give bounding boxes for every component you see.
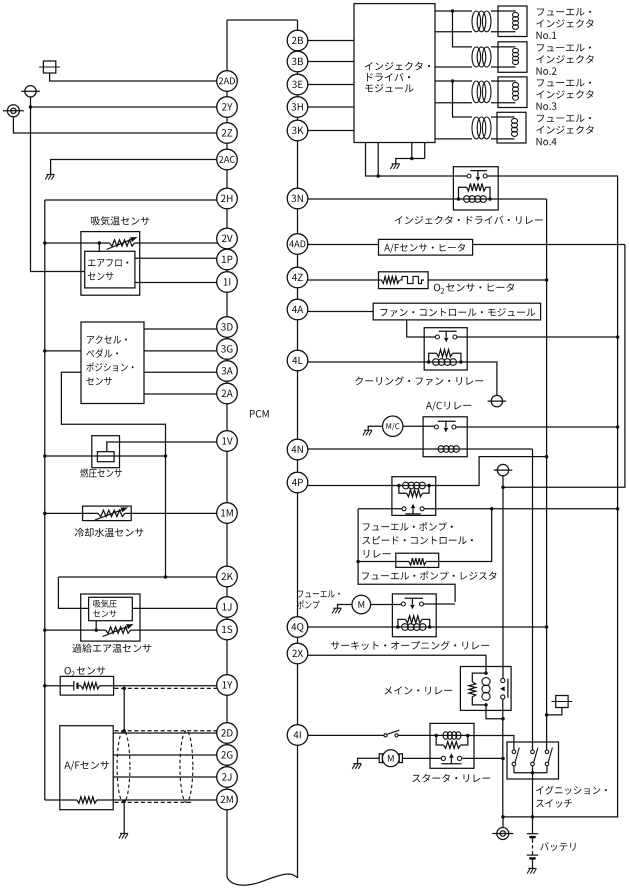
PCM pin 1I xyxy=(217,272,238,293)
injector cable coil No.1 xyxy=(472,11,491,32)
relay K1 box (injector driver relay) xyxy=(453,167,498,210)
PCM pin 2G xyxy=(217,745,238,766)
node fuelpressure-return xyxy=(164,454,168,458)
ground G6 (starter) xyxy=(352,764,361,769)
injector No.3 label line2 xyxy=(536,90,593,98)
PCM pin 2K xyxy=(217,566,238,587)
wire K4 drop to resistor xyxy=(439,509,492,562)
ignition switch terminals top xyxy=(512,750,549,754)
relay K4 label line3 xyxy=(364,550,391,558)
page connector J3 (double circle) xyxy=(3,105,24,117)
PCM pin 4AD xyxy=(287,234,308,255)
relay K5 parallel resistor xyxy=(398,616,430,627)
PCM pin 2A xyxy=(217,383,238,404)
thermistor RT3 (charge air temp) xyxy=(103,624,134,637)
relay K4 contact bar+arrow xyxy=(405,504,421,514)
node inj1 feed xyxy=(451,9,455,13)
PCM pin 3G xyxy=(217,339,238,360)
relay K2 box (cooling fan relay) xyxy=(424,328,467,370)
wire feed drop to injector No.4 xyxy=(453,81,473,117)
node K7 coil left xyxy=(434,734,438,738)
motor M2 (fuel pump) xyxy=(352,595,371,614)
wire 2X row xyxy=(308,655,486,673)
injector No.1 label line2 xyxy=(536,19,593,27)
switch S1 (open contact) xyxy=(384,730,399,737)
PCM pin 4N xyxy=(287,439,308,460)
node module-K1 junction xyxy=(376,174,380,178)
wire A/F to pin 2G xyxy=(113,754,218,756)
wire to pin 2Y xyxy=(31,106,219,108)
relay K4 label line1 xyxy=(363,522,453,531)
fuel pressure sensor outer box xyxy=(92,436,120,468)
APP sensor label line3 xyxy=(86,363,133,372)
node bus-2V xyxy=(43,241,47,245)
page connector J5 xyxy=(494,464,513,475)
wire 1M row xyxy=(45,512,218,514)
resistor R-AF (A/F heater) xyxy=(77,797,97,803)
relay K7 box (starter relay) xyxy=(430,723,474,768)
node B1-K4 xyxy=(616,507,620,511)
relay K1 coil row wire xyxy=(308,198,547,200)
ground G2 (A/F shield) xyxy=(119,833,128,838)
ignition switch label line2 xyxy=(536,799,572,808)
ignition switch box xyxy=(507,742,559,779)
wire J5 stub xyxy=(502,476,504,487)
wire pin 3H to module xyxy=(308,106,354,108)
injector cable coil No.4 xyxy=(472,117,491,139)
relay K1 label xyxy=(395,216,543,225)
wire 1S row xyxy=(45,629,218,631)
PCM pin 3A xyxy=(217,361,238,382)
PCM pin 2Y xyxy=(217,97,238,118)
relay K6 contact blade+arrow xyxy=(500,679,508,698)
relay K2 label xyxy=(355,376,483,385)
wire injector No.1 return xyxy=(435,31,472,33)
wire 4I row xyxy=(308,734,468,736)
wire 4Z to O2 heater xyxy=(308,279,382,281)
wire APP return path xyxy=(61,372,165,577)
thermistor RT2 (coolant temp) xyxy=(95,507,128,520)
relay K6 contact terminals xyxy=(501,678,505,699)
boost sensor label line1 xyxy=(93,600,117,608)
relay K4 contact left wire xyxy=(358,508,402,510)
PCM pin 2AD xyxy=(217,71,238,92)
node R1-left xyxy=(356,560,360,564)
wire K6 out xyxy=(486,699,503,817)
coolant temp sensor label xyxy=(75,528,144,537)
wire APP to pin 2A xyxy=(144,393,218,395)
injector No.1 label line3 xyxy=(536,32,556,39)
wire APP supply to bus xyxy=(45,350,81,352)
relay K2 parallel resistor xyxy=(429,350,461,362)
wire ignition to battery bus xyxy=(532,773,534,817)
wire heater to bus B2 xyxy=(473,244,625,246)
page connector J2 (circle) xyxy=(21,86,40,97)
A/F sensor heater box xyxy=(379,239,473,255)
node K7 coil right xyxy=(466,734,470,738)
relay K4 label line2 xyxy=(362,536,472,545)
PCM pin 2H xyxy=(217,188,238,209)
injector No.2 label line1 xyxy=(537,44,591,52)
node K4-drop xyxy=(490,507,494,511)
relay K5 contact right wire xyxy=(424,603,456,605)
wire 4P row xyxy=(307,457,546,486)
page connector J7 (double circle) xyxy=(492,828,513,840)
PCM connector right bus (wire) xyxy=(297,20,299,878)
battery label xyxy=(540,842,575,851)
wire K4 left down-link xyxy=(358,509,455,602)
relay K3 box (A/C relay) xyxy=(423,417,467,457)
PCM pin 3N xyxy=(287,188,308,209)
wire J6 to bus B3 xyxy=(547,708,562,715)
wire 2M row xyxy=(45,799,218,801)
page connector J4 (cooling fan) xyxy=(488,395,507,406)
node bottom-B5 xyxy=(501,815,505,819)
PCM bottom wavy cut line xyxy=(227,874,298,885)
relay K5 box (circuit opening relay) xyxy=(392,594,436,637)
airflow sensor inner box xyxy=(85,251,135,288)
relay K5 contact terminals xyxy=(401,602,423,606)
bus B3 wire (relay coil feed) xyxy=(546,199,548,750)
thermistor RT1 (intake air temp) xyxy=(107,237,138,250)
PCM pin 3E xyxy=(287,74,308,95)
bus B2 wire xyxy=(503,245,625,488)
node K5 coil right xyxy=(428,625,432,629)
O2 sensor box xyxy=(60,676,113,695)
wire 4L row xyxy=(308,362,497,395)
A/F shield dashed bottom xyxy=(115,801,194,803)
relay K3 contact out wire xyxy=(456,426,618,428)
wire pin 3K to module xyxy=(308,130,354,132)
PCM pin 4P xyxy=(287,472,308,493)
fuel pressure sensor label xyxy=(80,468,122,477)
node B3-4P xyxy=(545,455,549,459)
fuel injector No.4 coil xyxy=(491,117,518,139)
wire resistor left link xyxy=(358,561,396,563)
injector cable coil No.2 xyxy=(472,47,491,67)
wire boost sensor to pin 1J xyxy=(132,607,218,609)
PCM pin 2B xyxy=(287,30,308,51)
relay K2 contact terminals xyxy=(435,335,457,339)
module label line1 xyxy=(365,62,430,71)
wire 4A to fan module xyxy=(308,311,373,313)
wire A/F to pin 2D xyxy=(113,732,218,734)
bus B4 wire (A/C coil to ignition sw) xyxy=(532,449,534,750)
node K4 coil left xyxy=(397,484,401,488)
accelerator pedal position sensor box xyxy=(81,322,144,404)
wire module to relay K1 xyxy=(366,143,454,177)
module label line3 xyxy=(365,84,413,92)
node K2 coil left xyxy=(427,360,431,364)
node 2K-return junction xyxy=(164,575,168,579)
resistor R-O2 xyxy=(81,683,100,689)
wire J3 to pin 2Z xyxy=(13,117,218,133)
airflow sensor outer box xyxy=(81,232,140,296)
wire 4Q row xyxy=(308,626,547,628)
node K1 coil left xyxy=(457,197,461,201)
sensor bus wire (left vertical) xyxy=(44,200,46,800)
PCM pin 4L xyxy=(287,350,308,371)
bus B5 wire (J5 down to main relay) xyxy=(502,487,504,678)
node B3-fuse xyxy=(545,713,549,717)
node K6 coil top xyxy=(484,671,488,675)
wire 1Y row xyxy=(45,685,218,687)
fuel pump label line2 xyxy=(297,600,320,608)
wire pin 2H to sensor bus xyxy=(45,199,218,201)
node B1-K3 xyxy=(616,425,620,429)
airflow sensor label line1 xyxy=(88,259,128,267)
relay K4 box (fuel pump speed control relay) xyxy=(392,477,436,516)
injector No.2 label line2 xyxy=(536,55,593,63)
wire module to injector No.3 top xyxy=(435,80,472,82)
O2 sensor label xyxy=(65,667,106,677)
injector No.4 label line3 xyxy=(536,138,556,145)
page connector J6 (square fuse symbol right) xyxy=(552,696,573,708)
wire B5 to page connector J7 xyxy=(502,817,504,827)
ground G4 (A/C) xyxy=(363,430,372,435)
APP sensor label line2 xyxy=(86,349,118,358)
wire feed drop to injector No.2 xyxy=(453,11,473,47)
motor M1 (A/C compressor) xyxy=(383,416,403,436)
wire injector No.3 return xyxy=(435,102,472,104)
A/F shield dashed top xyxy=(115,730,217,732)
wire J2 down-bus to airflow sensor box xyxy=(31,97,85,272)
wire J1 to pin 2AD xyxy=(50,73,218,81)
relay K7 parallel resistor xyxy=(436,736,468,749)
relay K7 label xyxy=(412,774,490,783)
relay K6 parallel resistor xyxy=(469,673,486,705)
wire APP to pin 3G xyxy=(144,350,218,352)
wire K7 coil to ignition sw xyxy=(468,736,514,751)
O2 sensor heater label xyxy=(434,283,514,293)
PCM pin 2M xyxy=(217,789,238,810)
wire airflow to pin 1I xyxy=(135,282,218,284)
node K1 coil right xyxy=(488,197,492,201)
ignition switch label line1 xyxy=(536,786,607,795)
O2 heater element xyxy=(400,276,424,283)
PCM pin 2J xyxy=(217,767,238,788)
node K6 coil bottom xyxy=(484,703,488,707)
injector No.2 label line3 xyxy=(536,67,556,75)
relay K7 contact terminals xyxy=(441,756,461,760)
node shield-bottom xyxy=(122,799,126,803)
wire APP to pin 3D xyxy=(144,328,218,330)
PCM pin 4Q xyxy=(287,617,308,638)
fuel injector No.2 coil xyxy=(491,47,519,67)
relay K1 contact bar+arrow xyxy=(470,171,487,182)
PCM top interconnect wire xyxy=(227,19,298,21)
A/F shield ellipse right xyxy=(180,731,193,803)
node K6-join xyxy=(501,717,505,721)
relay K2 contact out wire xyxy=(457,336,618,338)
wire pin 3B to module xyxy=(308,61,354,63)
relay K1 contact wire xyxy=(453,175,498,177)
O2 sensor cell plates xyxy=(74,681,78,691)
relay K3 contact terminals xyxy=(434,425,456,429)
wire APP to pin 3A xyxy=(144,371,218,373)
relay K7 coil xyxy=(443,732,461,740)
A/F sensor heater label xyxy=(384,243,465,253)
wire fuel pressure to pin 1V xyxy=(107,442,218,452)
page connector J1 (square fuse symbol top-left) xyxy=(39,61,60,73)
PCM pin 3D xyxy=(217,317,238,338)
ground G3 (module) xyxy=(390,164,399,169)
PCM pin 4A xyxy=(287,299,308,320)
wire boost sensor ground stub xyxy=(95,621,97,630)
intake air temp sensor label xyxy=(91,216,149,225)
O2 heater resistor xyxy=(382,277,400,284)
wire O2 heater to bus B3 xyxy=(428,279,546,281)
fan control module box xyxy=(373,303,540,320)
injector No.4 label line1 xyxy=(537,114,591,122)
injector driver module box xyxy=(354,4,435,143)
PCM pin 1M xyxy=(217,503,238,524)
relay K4 coil xyxy=(403,482,426,489)
wire 4N row xyxy=(308,448,533,450)
airflow sensor label line2 xyxy=(88,272,113,280)
wire M1 to K3 contact xyxy=(403,425,435,427)
wire M3 to K7 contact xyxy=(402,757,441,759)
relay K4 parallel resistor xyxy=(399,486,429,497)
boost sensor label line2 xyxy=(93,610,116,617)
A/C relay label xyxy=(426,401,471,411)
PCM pin 1Y xyxy=(217,675,238,696)
ignition switch bottom bar xyxy=(514,766,547,773)
node bus-fuelpressure xyxy=(43,454,47,458)
boost pressure sensor inner box xyxy=(89,597,133,620)
wire 2K to 1J link xyxy=(58,577,88,608)
relay K3 coil xyxy=(438,446,459,453)
wire M2 to K5 contact xyxy=(371,604,402,606)
node bus-APP xyxy=(43,349,47,353)
wire K7 contact to bus B5 xyxy=(462,757,503,759)
PCM pin 2D xyxy=(217,723,238,744)
wire module to injector No.1 top xyxy=(435,10,472,12)
PCM pin 3B xyxy=(287,51,308,72)
relay K2 contact bar+arrow xyxy=(439,331,457,342)
relay K5 label xyxy=(331,641,489,650)
fuel injector No.3 box xyxy=(498,77,527,108)
PCM pin 4I xyxy=(287,725,308,746)
shield wire 1Y (dashed) xyxy=(115,687,217,689)
node B5-K7 xyxy=(501,757,505,761)
node K4 coil right xyxy=(427,484,431,488)
wire tap to airflow box xyxy=(98,243,100,251)
PCM label xyxy=(250,410,269,418)
fuel injector No.4 box xyxy=(497,112,526,143)
node boost-1S junction xyxy=(94,628,98,632)
PCM pin 3K xyxy=(287,120,308,141)
wire pin 3E to module xyxy=(308,84,354,86)
APP sensor label line4 xyxy=(86,377,111,385)
relay K1 contact terminals xyxy=(467,174,487,178)
wire injector No.4 return xyxy=(435,138,472,140)
PCM pin 2X xyxy=(287,643,308,664)
node K5 coil left xyxy=(396,625,400,629)
relay K1 coil xyxy=(464,196,487,203)
wire injector No.2 return xyxy=(435,66,472,68)
PCM pin 1V xyxy=(217,431,238,452)
PCM pin 3H xyxy=(287,97,308,118)
wire module ground pins xyxy=(396,143,425,164)
node B3-4Z xyxy=(545,278,549,282)
relay K7 contact bar+arrow xyxy=(441,753,461,764)
node J5-B2 xyxy=(501,485,505,489)
fuel pressure sensor element box xyxy=(97,452,114,462)
resistor R1 (fuel pump) xyxy=(396,558,439,565)
node B3-4Q xyxy=(545,625,549,629)
A/F sensor label xyxy=(64,761,109,771)
fuel injector No.3 coil xyxy=(491,81,519,103)
node module ground junction xyxy=(410,157,414,161)
relay K6 box (main relay) xyxy=(460,667,511,711)
node bus-1S xyxy=(43,628,47,632)
fuel pump resistor box xyxy=(396,553,439,567)
relay K6 coil xyxy=(482,678,490,701)
PCM connector left bus (wire) xyxy=(226,20,228,877)
PCM pin 2V xyxy=(217,228,238,249)
node ignition common xyxy=(531,771,535,775)
relay K5 coil xyxy=(402,624,426,631)
wire A/F to pin 2J xyxy=(113,776,218,778)
PCM pin 4Z xyxy=(287,267,308,288)
node shield-top xyxy=(122,729,126,733)
motor M3 (starter) xyxy=(379,750,402,767)
module label line2 xyxy=(367,73,410,82)
bus B1 wire (right outer) xyxy=(498,176,617,817)
relay K3 contact bar+arrow xyxy=(438,421,456,432)
ground G5 (fuel pump) xyxy=(332,608,341,613)
PCM pin 1P xyxy=(217,249,238,270)
fuel injector No.1 box xyxy=(498,6,527,37)
injector cable coil No.3 xyxy=(472,81,491,103)
ignition switch terminals bottom xyxy=(512,762,549,766)
APP sensor label line1 xyxy=(87,335,127,344)
injector No.3 label line1 xyxy=(537,79,591,87)
A/F shield ellipse left xyxy=(117,731,130,803)
wire 2K row xyxy=(58,576,218,578)
node bottom-battery xyxy=(531,815,535,819)
O2 sensor heater box xyxy=(379,272,429,289)
node J2-2Y junction xyxy=(29,105,33,109)
wire fan module to relay K2 xyxy=(407,320,436,337)
coolant temp sensor box xyxy=(83,506,132,520)
PCM pin 2Z xyxy=(217,123,238,144)
fuel injector No.2 box xyxy=(498,42,527,73)
fan control module label xyxy=(380,308,535,317)
injector No.1 label line1 xyxy=(537,8,591,16)
wire fuel-pressure row xyxy=(45,455,166,457)
PCM pin 1J xyxy=(217,597,238,618)
PCM pin 1S xyxy=(217,619,238,640)
fuel pump resistor label xyxy=(362,571,497,580)
node B1-K2 xyxy=(616,335,620,339)
relay K1 parallel resistor xyxy=(459,183,491,199)
relay K4 contact right wire xyxy=(424,508,617,510)
injector No.3 label line3 xyxy=(536,102,556,110)
ignition switch blades xyxy=(515,748,552,763)
fuel pump label line1 xyxy=(298,590,340,597)
wire shield to ground xyxy=(123,802,125,833)
relay K4 contact terminals xyxy=(402,507,424,511)
ground G1 (2AC) xyxy=(45,174,54,179)
wire pin 2AC to ground xyxy=(51,160,218,175)
boost pressure sensor outer box xyxy=(81,594,140,641)
node bus-1M xyxy=(43,512,47,516)
wire shield vertical xyxy=(123,688,125,730)
wire 4AD to heater box xyxy=(308,244,379,246)
main relay label xyxy=(384,686,452,694)
